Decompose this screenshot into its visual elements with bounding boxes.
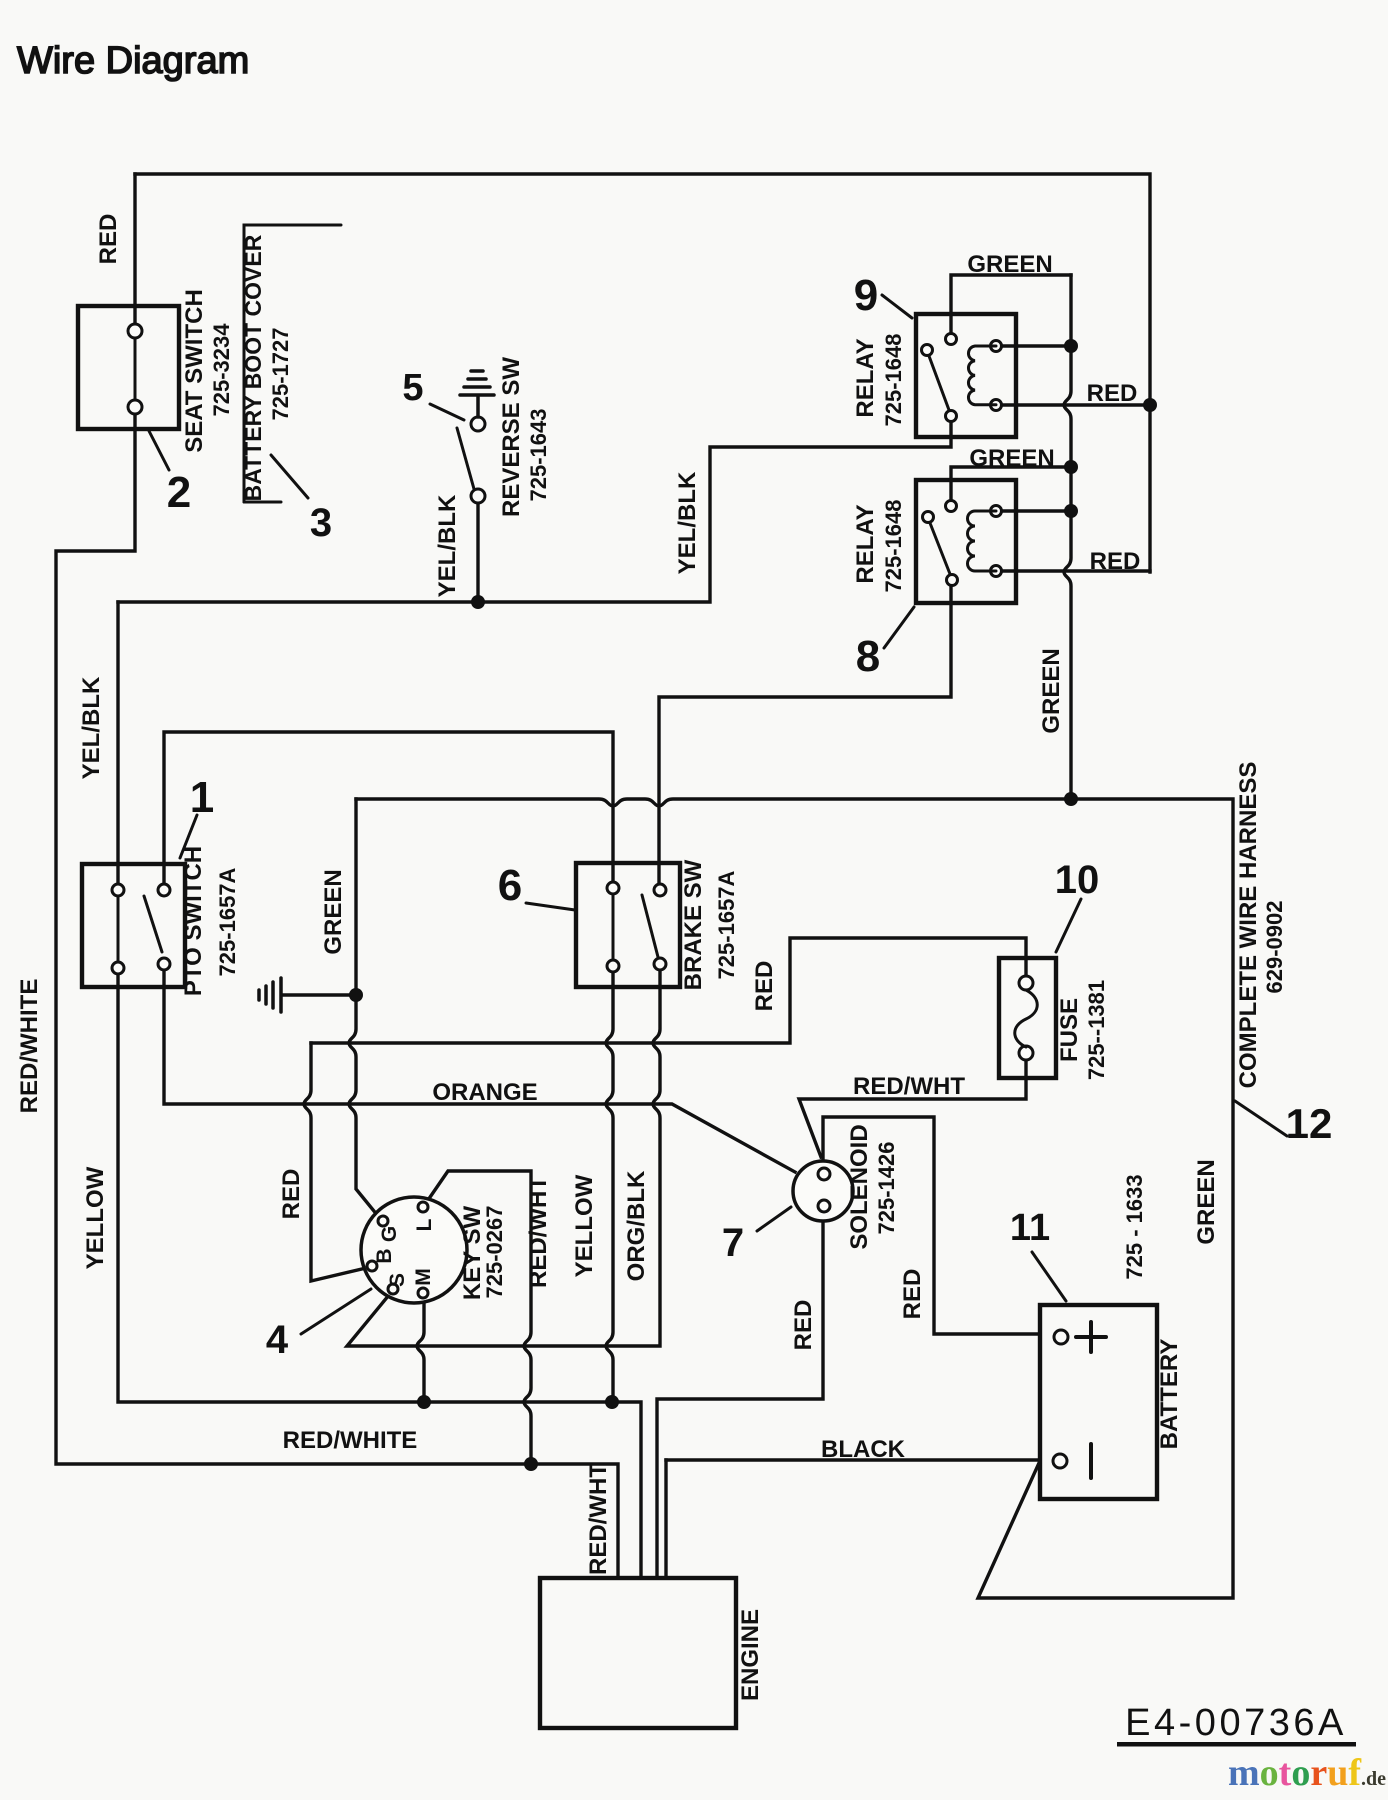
svg-text:12: 12: [1286, 1100, 1333, 1147]
svg-text:RELAY: RELAY: [852, 338, 879, 417]
svg-text:725-1657A: 725-1657A: [215, 867, 240, 976]
wire reverse switch riser: [476, 503, 479, 602]
battery terminals: [1054, 1330, 1068, 1344]
relay 8 blade: [930, 523, 950, 574]
svg-text:725-1643: 725-1643: [526, 409, 551, 502]
key switch body: [361, 1197, 467, 1303]
svg-text:GREEN: GREEN: [1038, 648, 1065, 733]
relay U9 box: [916, 314, 1016, 437]
svg-text:L: L: [413, 1218, 436, 1231]
callout line 1: [180, 815, 197, 858]
svg-text:725-3234: 725-3234: [209, 323, 234, 417]
svg-text:725-1657A: 725-1657A: [714, 870, 739, 979]
svg-text:RED: RED: [1090, 548, 1141, 575]
reverse switch blade: [457, 428, 474, 489]
wire ORANGE: [164, 971, 795, 1172]
battery plus sign: [1076, 1322, 1106, 1352]
svg-text:ORANGE: ORANGE: [432, 1079, 537, 1106]
svg-text:BLACK: BLACK: [821, 1436, 906, 1463]
svg-text:9: 9: [854, 271, 878, 320]
wire YEL/BLK bus (PTO to relay 9): [118, 423, 951, 602]
wire solenoid RED return to engine: [657, 1224, 823, 1578]
wire relay 8 coil top: [1001, 509, 1071, 512]
wire key M pin drop: [417, 1299, 424, 1402]
callout line 9: [882, 295, 912, 318]
wire BLACK battery minus: [666, 1458, 1040, 1461]
svg-text:GREEN: GREEN: [1193, 1159, 1220, 1244]
svg-text:G: G: [378, 1226, 401, 1242]
node relay 9 coil/green: [1064, 339, 1078, 353]
svg-text:RELAY: RELAY: [852, 504, 879, 583]
svg-text:725 - 1633: 725 - 1633: [1122, 1174, 1147, 1279]
svg-text:ORG/BLK: ORG/BLK: [623, 1170, 650, 1281]
wire YELLOW net to engine: [118, 974, 641, 1578]
engine box: [540, 1578, 736, 1728]
svg-text:ENGINE: ENGINE: [737, 1609, 764, 1701]
svg-text:motoruf.de: motoruf.de: [1228, 1752, 1386, 1794]
svg-text:725-1648: 725-1648: [881, 500, 906, 593]
callout line 7: [757, 1207, 791, 1231]
callout line 12: [1235, 1101, 1287, 1136]
svg-text:8: 8: [856, 632, 880, 681]
svg-text:725-1426: 725-1426: [874, 1142, 899, 1235]
svg-text:GREEN: GREEN: [969, 445, 1054, 472]
battery minus sign: [1089, 1444, 1093, 1478]
node ground junction: [349, 988, 363, 1002]
svg-text:1: 1: [190, 773, 214, 822]
node yellow junction: [605, 1395, 619, 1409]
fuse box: [999, 958, 1056, 1078]
svg-text:2: 2: [167, 468, 191, 517]
svg-text:GREEN: GREEN: [320, 869, 347, 954]
svg-text:725-0267: 725-0267: [482, 1206, 507, 1299]
seat switch box: [78, 306, 179, 429]
svg-text:RED/WHT: RED/WHT: [585, 1463, 612, 1575]
svg-text:RED/WHT: RED/WHT: [525, 1176, 552, 1288]
wire relay 8 coil RED: [1001, 569, 1150, 572]
svg-text:SEAT SWITCH: SEAT SWITCH: [181, 289, 208, 453]
svg-text:RED: RED: [95, 214, 122, 265]
wire relay 8 switch to brake top-right: [659, 586, 951, 884]
relay 9 pins: [946, 334, 957, 345]
wire fuse bottom RED/WHT to solenoid: [799, 1060, 1026, 1157]
svg-text:RED: RED: [899, 1269, 926, 1320]
svg-text:725--1381: 725--1381: [1084, 980, 1109, 1080]
callout line 3: [271, 455, 308, 498]
wire key L pin RED/WHT drop: [426, 1171, 531, 1464]
ground key switch green: [279, 978, 283, 1012]
svg-text:YELLOW: YELLOW: [82, 1166, 109, 1269]
svg-text:YELLOW: YELLOW: [571, 1174, 598, 1277]
svg-text:BRAKE SW: BRAKE SW: [680, 859, 707, 990]
wire fuse top feed: [311, 938, 1026, 1043]
seat switch pins: [128, 324, 142, 338]
seat switch contact link: [134, 338, 137, 400]
motoruf.de logo: [1228, 1752, 1386, 1794]
PTO blade: [144, 896, 162, 952]
svg-text:RED/WHITE: RED/WHITE: [16, 979, 43, 1114]
callout line 8: [884, 607, 914, 648]
svg-text:RED: RED: [278, 1169, 305, 1220]
wire PTO top-right to brake top-left: [164, 732, 613, 884]
relay 9 blade: [929, 356, 949, 410]
svg-text:YEL/BLK: YEL/BLK: [434, 494, 461, 597]
wire RED to key B pin: [304, 1043, 366, 1281]
callout line 4: [301, 1289, 371, 1334]
svg-text:YEL/BLK: YEL/BLK: [674, 471, 701, 574]
svg-text:7: 7: [722, 1221, 744, 1265]
callout line 6: [526, 903, 575, 910]
node green harness junction: [1064, 792, 1078, 806]
svg-text:M: M: [412, 1268, 435, 1286]
PTO switch box: [82, 864, 185, 987]
svg-text:COMPLETE WIRE HARNESS: COMPLETE WIRE HARNESS: [1235, 762, 1262, 1089]
relay U8 box: [916, 480, 1016, 603]
svg-text:B: B: [373, 1248, 396, 1263]
svg-text:RED: RED: [1087, 380, 1138, 407]
svg-text:BATTERY: BATTERY: [1156, 1339, 1183, 1450]
callout line 11: [1032, 1252, 1066, 1301]
wire ground stem: [283, 993, 352, 996]
PTO pins: [112, 884, 124, 896]
wire top RED bus: [135, 174, 1150, 572]
brake contact link: [612, 894, 615, 960]
node key M junction: [417, 1395, 431, 1409]
wire BLACK engine drop: [664, 1460, 667, 1578]
relay 8 coil: [968, 511, 997, 571]
brake switch box: [576, 863, 680, 987]
callout line 5: [430, 404, 464, 420]
svg-text:6: 6: [498, 861, 522, 910]
wire seat switch bottom / RED-WHITE run to engine: [56, 414, 618, 1578]
wire solenoid RED loop to battery plus: [823, 1117, 1040, 1334]
wire GREEN ground bus and harness loop: [356, 799, 1233, 1598]
svg-text:S: S: [386, 1273, 409, 1287]
svg-text:SOLENOID: SOLENOID: [846, 1124, 873, 1249]
brake blade: [642, 895, 658, 957]
relay 9 coil: [968, 346, 996, 405]
svg-text:629-0902: 629-0902: [1262, 901, 1287, 994]
brake pins: [607, 882, 619, 894]
wire relay 9 coil RED: [1001, 403, 1150, 406]
node RED bus junction: [1143, 398, 1157, 412]
solenoid body: [793, 1161, 853, 1221]
callout line 10: [1056, 899, 1081, 952]
svg-text:BATTERY BOOT COVER: BATTERY BOOT COVER: [240, 234, 266, 501]
reverse switch pins: [471, 417, 485, 431]
svg-text:4: 4: [266, 1318, 289, 1362]
fuse pins: [1019, 976, 1033, 990]
node relay 8 green: [1064, 460, 1078, 474]
node relay 8 coil/green: [1064, 504, 1078, 518]
battery boot cover bracket: [244, 225, 341, 502]
svg-text:5: 5: [402, 367, 423, 409]
wire brake left YELLOW riser: [606, 972, 613, 1402]
svg-text:E4-00736A: E4-00736A: [1125, 1702, 1347, 1744]
wire seat switch top lead: [133, 174, 136, 325]
svg-text:REVERSE SW: REVERSE SW: [498, 357, 525, 517]
svg-text:3: 3: [310, 501, 332, 545]
svg-text:YEL/BLK: YEL/BLK: [78, 676, 105, 779]
svg-text:10: 10: [1055, 858, 1100, 902]
node red/white junction: [524, 1457, 538, 1471]
wire PTO top-left riser: [116, 602, 119, 884]
svg-text:Wire Diagram: Wire Diagram: [17, 40, 249, 82]
wire GREEN vertical to key G pin: [349, 799, 378, 1216]
drawing number E4-00736A: [1117, 1702, 1356, 1747]
svg-text:PTO SWITCH: PTO SWITCH: [180, 846, 207, 996]
callout line 2: [149, 431, 169, 470]
wire relay 9 green loop: [951, 275, 1071, 333]
svg-text:RED: RED: [790, 1300, 817, 1351]
fuse element: [1015, 990, 1038, 1047]
relay 8 pins: [946, 501, 957, 512]
wire brake right ORG/BLK riser to key S pin: [347, 971, 660, 1346]
svg-text:FUSE: FUSE: [1056, 998, 1083, 1062]
node YEL/BLK junction: [471, 595, 485, 609]
svg-text:725-1648: 725-1648: [881, 334, 906, 427]
svg-text:GREEN: GREEN: [967, 251, 1052, 278]
wire relay 9 coil top: [1001, 344, 1071, 347]
PTO contact link: [117, 896, 120, 962]
svg-text:11: 11: [1010, 1207, 1050, 1249]
wire green relay drop: [1064, 275, 1071, 799]
battery box: [1040, 1305, 1157, 1499]
ground reverse switch: [476, 397, 480, 417]
svg-text:725-1727: 725-1727: [268, 328, 293, 421]
wire relay 8 green loop: [951, 467, 1071, 500]
svg-text:RED: RED: [751, 961, 778, 1012]
svg-text:RED/WHT: RED/WHT: [853, 1073, 965, 1100]
svg-text:RED/WHITE: RED/WHITE: [283, 1427, 418, 1454]
